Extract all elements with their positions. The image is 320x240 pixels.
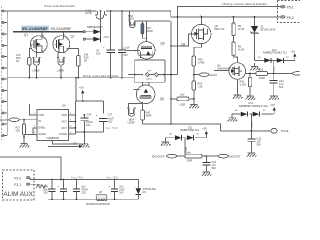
svg-text:1R: 1R: [16, 60, 19, 63]
svg-text:200R: 200R: [187, 159, 193, 162]
wire D13 center tap: [250, 114, 252, 131]
connector P3 dashed box ALIM AUX: [3, 170, 34, 200]
resistor R16: [28, 58, 31, 66]
svg-text:15 Amp. continu dans la branch: 15 Amp. continu dans la branche: [83, 74, 119, 78]
wire mid bus: [7, 77, 135, 79]
diode D13 dual: [228, 102, 276, 122]
svg-text:BLM21PD220SN1D: BLM21PD220SN1D: [86, 203, 110, 206]
resistor R19: [77, 56, 81, 67]
svg-text:12.3K: 12.3K: [238, 28, 245, 31]
svg-text:Q7: Q7: [71, 35, 75, 39]
resistor R30: [248, 77, 251, 87]
node label right: [292, 72, 303, 76]
svg-text:P3-1: P3-1: [14, 183, 21, 187]
svg-text:Q8: Q8: [181, 43, 185, 47]
svg-text:OUT: OUT: [61, 126, 67, 130]
svg-text:4,5,6: 4,5,6: [104, 36, 110, 39]
junction dots top bus: [100, 10, 102, 12]
svg-text:80PL71F: 80PL71F: [215, 28, 226, 31]
svg-text:50V: 50V: [212, 167, 217, 170]
svg-text:L55R: L55R: [180, 103, 186, 106]
svg-text:C37: C37: [108, 114, 113, 117]
svg-text:200R: 200R: [259, 77, 265, 80]
wire lower gate line: [143, 124, 221, 131]
junction dots gate line: [41, 31, 43, 33]
svg-text:Fam. TR32: Fam. TR32: [71, 176, 84, 179]
inductor L2: [128, 11, 136, 28]
svg-text:opbus: opbus: [146, 78, 153, 80]
inductor L1: [95, 11, 107, 19]
svg-text:Q6: Q6: [160, 42, 164, 46]
svg-text:P5-1: P5-1: [287, 6, 294, 10]
svg-text:10/1R: 10/1R: [85, 12, 92, 15]
svg-text:THS8RAD: THS8RAD: [46, 136, 59, 140]
svg-text:+: +: [109, 184, 111, 188]
wire pulse row: [220, 130, 270, 132]
capacitor C39: [51, 180, 53, 200]
svg-text:IRLZ24NRBF: IRLZ24NRBF: [22, 27, 48, 31]
svg-text:16V: 16V: [119, 191, 124, 194]
connector P1 dashed outline: [0, 6, 2, 140]
svg-text:bbb: bbb: [187, 151, 192, 154]
svg-text:ENBL: ENBL: [38, 126, 45, 130]
svg-text:15 Amp. continu dans la branch: 15 Amp. continu dans la branche: [44, 4, 75, 8]
ground below R24: [189, 103, 199, 108]
wire mid bus to jumper: [134, 75, 136, 78]
connector pin P5-1: [281, 5, 286, 8]
svg-text:U4: U4: [62, 104, 66, 108]
capacitor C34: [83, 115, 85, 132]
svg-text:bbb: bbb: [180, 94, 185, 97]
wire Q6 gate feed: [126, 50, 141, 52]
wire IC ground row: [75, 132, 103, 142]
wire aux bottom rail: [48, 198, 138, 200]
svg-text:5/8A: 5/8A: [128, 15, 133, 18]
transistor Q5: [134, 82, 165, 105]
svg-text:MMBD7000LT1G: MMBD7000LT1G: [263, 52, 287, 55]
node BOOST right label: [218, 154, 229, 158]
diode D12 dual: [250, 49, 296, 71]
svg-text:LS689: LS689: [32, 70, 40, 73]
svg-text:BOOST: BOOST: [152, 154, 165, 158]
wire top bus: [7, 11, 281, 17]
svg-text:L8: L8: [99, 190, 103, 194]
svg-text:OUT: OUT: [61, 120, 67, 124]
svg-text:VDD: VDD: [38, 113, 44, 117]
wire to aux filter: [0, 157, 61, 180]
svg-text:Fam. TR32: Fam. TR32: [106, 176, 119, 179]
jumper JP5 pads: [128, 71, 177, 81]
svg-text:+: +: [96, 114, 98, 118]
node PULSE label: [271, 129, 278, 134]
transistor Q7: [53, 32, 79, 58]
svg-text:1.3K: 1.3K: [198, 85, 203, 88]
inductor L5: [127, 104, 142, 117]
svg-text:6.49K: 6.49K: [198, 61, 205, 64]
wire Q6 source bar: [135, 60, 165, 82]
svg-text:BOOST: BOOST: [0, 118, 9, 122]
svg-text:1.33K: 1.33K: [240, 83, 247, 86]
wire P5 feed rail: [177, 6, 179, 74]
transistor Q1: [29, 32, 47, 58]
diode D4: [137, 180, 139, 200]
svg-text:EA41: EA41: [211, 73, 218, 77]
svg-text:+: +: [58, 184, 60, 188]
svg-text:C28: C28: [81, 191, 86, 194]
svg-text:400R: 400R: [146, 114, 152, 117]
capacitor C37: [99, 117, 108, 119]
svg-text:16V: 16V: [123, 54, 128, 57]
junction dots mid bus: [28, 77, 30, 79]
svg-text:35V: 35V: [44, 191, 49, 194]
capacitor C9: [118, 11, 130, 78]
svg-text:PGND: PGND: [59, 132, 67, 136]
power +17V arrow: [48, 145, 79, 147]
IC U4 THS8RAD: [24, 104, 75, 141]
power +5V arrow: [81, 90, 84, 93]
svg-text:MMBD7000LT1G: MMBD7000LT1G: [180, 129, 199, 132]
svg-text:10K: 10K: [16, 129, 21, 132]
svg-text:Q5: Q5: [160, 97, 164, 101]
svg-text:+5V: +5V: [202, 127, 207, 131]
connector pin P5-2: [281, 16, 286, 19]
svg-text:+5V: +5V: [291, 49, 296, 53]
svg-text:+5V: +5V: [270, 103, 275, 107]
resistor R17: [23, 120, 25, 124]
wire jumper right rail: [170, 21, 172, 124]
svg-text:Q1: Q1: [24, 33, 28, 37]
resistor R8: [232, 42, 235, 55]
svg-text:50V: 50V: [279, 86, 284, 89]
svg-text:BZV55-C6V8: BZV55-C6V8: [261, 28, 276, 31]
svg-text:43ΩR: 43ΩR: [146, 30, 153, 33]
svg-text:MBRB2545CT: MBRB2545CT: [89, 26, 103, 29]
svg-text:P5-2: P5-2: [287, 16, 294, 20]
svg-text:PULSE: PULSE: [281, 129, 289, 133]
diode D11 dual: [161, 126, 208, 145]
svg-text:MMBD7000LT1G: MMBD7000LT1G: [239, 105, 268, 108]
capacitor C29: [114, 180, 116, 200]
resistor R42: [141, 110, 145, 120]
svg-text:16V: 16V: [108, 120, 113, 123]
inductor L8 ferrite: [96, 195, 107, 200]
value IRLZ24NRBF highlighted: [21, 26, 49, 31]
connector P5 dashed box: [278, 1, 301, 23]
wire D12 center tap: [273, 60, 275, 74]
svg-text:LS689: LS689: [57, 70, 65, 73]
capacitor C28: [76, 180, 78, 200]
wire P3-1 ground: [30, 183, 40, 185]
zener Z1: [251, 16, 276, 61]
capacitor C32: [250, 131, 252, 139]
svg-text:AGND: AGND: [38, 132, 46, 136]
connector P1 pins: [3, 11, 7, 136]
svg-text:16.3K: 16.3K: [238, 48, 245, 51]
capacitor C24: [273, 73, 275, 80]
svg-text:BOOST: BOOST: [230, 154, 241, 158]
svg-text:2.2uF: 2.2uF: [123, 47, 130, 50]
svg-text:IN: IN: [38, 119, 41, 123]
svg-text:R20: R20: [259, 69, 264, 72]
svg-text:50V: 50V: [257, 143, 262, 146]
svg-text:P3-2: P3-2: [14, 176, 21, 180]
wire aux top rail: [30, 178, 138, 180]
resistor R9: [232, 23, 235, 36]
transistor Q8: [170, 15, 225, 57]
capacitor C27: [63, 180, 65, 200]
wire vertical to boost row: [184, 140, 186, 154]
resistor R38 boost row: [171, 98, 177, 100]
wire P5-1 line: [178, 6, 281, 16]
svg-text:C34: C34: [87, 114, 92, 117]
svg-text:VDD: VDD: [61, 113, 67, 117]
capacitor C23: [205, 156, 207, 162]
svg-text:PCA2: PCA2: [273, 66, 276, 72]
svg-text:ALIM AUX: ALIM AUX: [3, 191, 33, 198]
svg-text:16V: 16V: [86, 124, 91, 127]
svg-text:1R: 1R: [84, 60, 87, 63]
diode D1 dual schottky: [83, 11, 109, 43]
resistor R24: [192, 81, 195, 90]
capacitor C4: [96, 11, 115, 78]
inductor LS689 (Q7): [57, 58, 65, 78]
svg-text:Fam. TR32: Fam. TR32: [106, 127, 119, 130]
inductor LS689 (Q1): [32, 58, 40, 78]
svg-text:2XMN60N07TA: 2XMN60N07TA: [217, 67, 235, 70]
svg-text:+5V: +5V: [79, 86, 84, 90]
transistor Q6: [135, 21, 165, 59]
resistor R21 boost: [185, 154, 202, 158]
resistor R39: [192, 56, 195, 66]
node EAG label: [193, 74, 195, 76]
wire +5V rail feed: [75, 78, 103, 134]
resistor R20: [256, 72, 268, 76]
svg-text:15 Amp. continu dans la branch: 15 Amp. continu dans la branche: [222, 2, 267, 6]
resistor R43: [141, 23, 144, 34]
transistor Q4: [214, 61, 256, 99]
wire gate line Q1/Q7: [13, 31, 84, 33]
svg-text:LS689: LS689: [128, 121, 136, 124]
svg-text:IRLZ34NRBF: IRLZ34NRBF: [51, 27, 72, 31]
svg-text:+: +: [103, 46, 105, 50]
svg-text:+17V: +17V: [71, 141, 77, 145]
svg-text:16V: 16V: [96, 53, 101, 56]
connector P1 rail: [6, 11, 8, 136]
svg-text:PCA2: PCA2: [250, 122, 253, 128]
